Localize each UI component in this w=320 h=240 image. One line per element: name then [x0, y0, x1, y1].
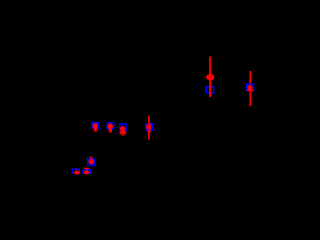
wire: red bond vertical: [250, 71, 252, 84]
node E3: nitro N third: [120, 124, 126, 130]
red highlight dot: [247, 85, 252, 90]
blue ring N (NH of amide): [206, 87, 213, 93]
wire: red highlighted bond through O and NH: [209, 57, 211, 98]
node G1: N bottom-left: [75, 168, 77, 169]
node E2: nitro N second: [107, 123, 113, 129]
node E1: nitro N first: [92, 123, 98, 129]
red bar: [247, 90, 254, 92]
node F: N lower: [89, 157, 92, 159]
node E4: N with vertical red bonds: [146, 124, 153, 130]
node G2: N bottom-middle: [84, 168, 89, 169]
O atom carbonyl: [206, 74, 214, 80]
blue ring N: [247, 84, 254, 90]
